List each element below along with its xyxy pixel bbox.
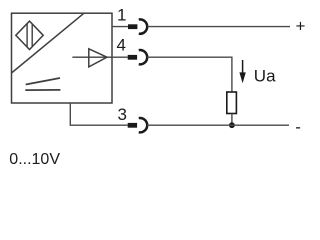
sensor box U1 bbox=[12, 13, 113, 103]
pin 1 contact bbox=[128, 24, 137, 29]
svg-text:1: 1 bbox=[117, 6, 126, 25]
node junction dot bbox=[229, 122, 235, 128]
svg-text:Ua: Ua bbox=[254, 66, 276, 85]
inductive sensor symbol diamond bbox=[16, 21, 43, 49]
pin 4 contact bbox=[128, 55, 137, 60]
wire box to pin 4 bbox=[112, 56, 128, 58]
analog output symbol bottom line bbox=[25, 89, 60, 91]
diagonal divider bbox=[12, 13, 85, 73]
Ua arrow bbox=[242, 60, 244, 74]
svg-text:4: 4 bbox=[117, 35, 126, 54]
load resistor bbox=[227, 92, 237, 114]
pin 3 connector arc bbox=[139, 118, 147, 132]
wire box bottom to pin 3 bbox=[70, 103, 127, 125]
wire pin 1 to plus bbox=[148, 26, 290, 28]
inductive symbol left bar bbox=[26, 24, 28, 47]
amplifier triangle bbox=[89, 49, 107, 67]
pin 3 contact bbox=[128, 123, 137, 128]
analog output symbol slanted line bbox=[26, 78, 60, 85]
pin 1 connector arc bbox=[139, 19, 147, 33]
wire pin 4 to corner bbox=[147, 57, 232, 92]
svg-text:-: - bbox=[295, 117, 301, 136]
pin 4 connector arc bbox=[139, 50, 147, 64]
wire resistor to node bbox=[231, 114, 233, 126]
wire box to pin 1 bbox=[112, 26, 128, 28]
wire pin 3 to minus bbox=[147, 124, 289, 126]
svg-text:3: 3 bbox=[118, 105, 127, 124]
svg-text:+: + bbox=[296, 17, 306, 36]
inductive symbol right bar bbox=[31, 24, 33, 46]
svg-text:0...10V: 0...10V bbox=[9, 151, 60, 168]
amplifier input wire bbox=[72, 56, 112, 58]
